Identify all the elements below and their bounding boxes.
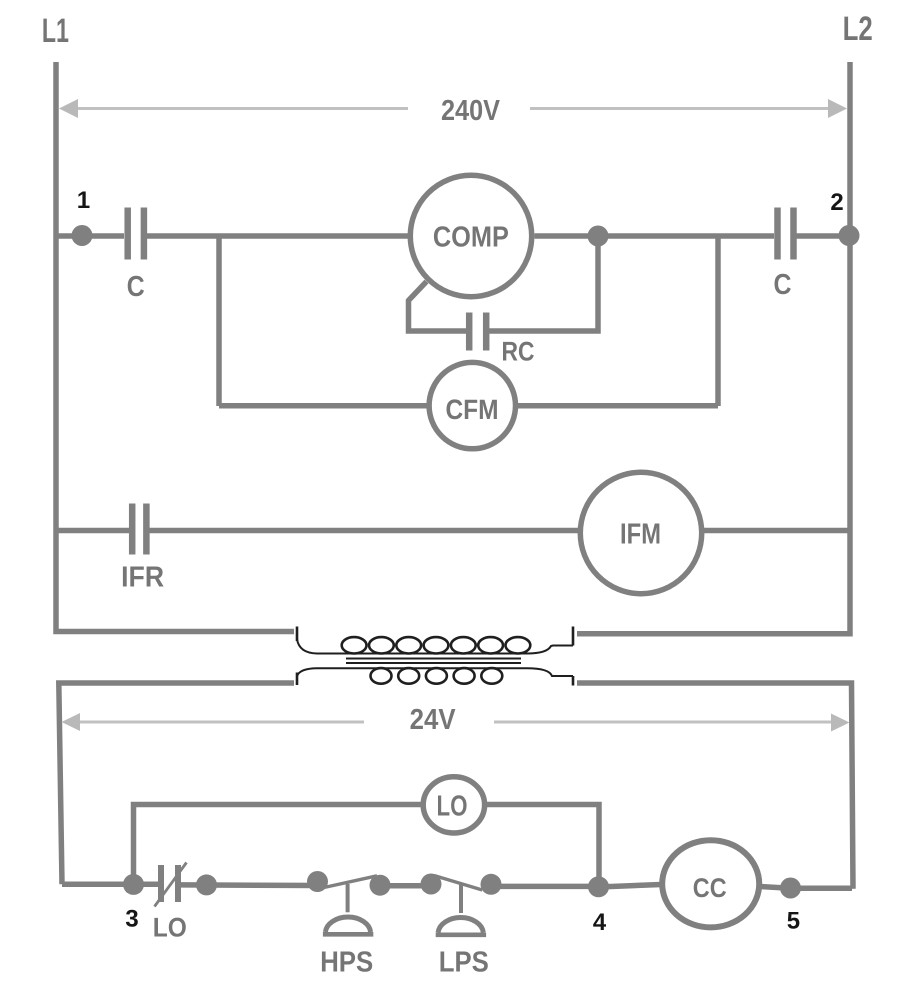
wire bottom row seg4 bbox=[491, 884, 599, 890]
motor IFM bbox=[580, 472, 701, 593]
node 4 bbox=[588, 876, 609, 897]
wire RC loop right bbox=[489, 241, 598, 331]
relay coil LO bbox=[423, 777, 484, 833]
pressure switch LPS bbox=[421, 874, 502, 935]
wire branch right vertical bbox=[715, 236, 721, 406]
capacitor contact C (left) bbox=[128, 208, 144, 260]
wire IFR row left bbox=[56, 528, 129, 534]
node 4 label bbox=[593, 914, 606, 931]
label RC bbox=[503, 342, 534, 361]
label HPS bbox=[322, 951, 372, 972]
label C (right) bbox=[775, 274, 791, 295]
label LPS bbox=[441, 951, 488, 972]
motor CFM bbox=[429, 362, 515, 448]
transformer T1 secondary lead ticks bbox=[297, 673, 573, 686]
transformer T1 primary coils bbox=[342, 637, 531, 653]
node after LO contact bbox=[196, 874, 217, 895]
label 24V bbox=[411, 709, 456, 729]
transformer T1 primary lead wire bbox=[297, 639, 573, 654]
node 5 label bbox=[788, 912, 800, 929]
capacitor contact C (right) bbox=[778, 208, 794, 260]
contact LO normally-closed bbox=[161, 865, 178, 902]
transformer T1 primary lead ticks bbox=[297, 627, 573, 646]
wire row1 left bbox=[58, 233, 124, 239]
wire bottom row seg1 bbox=[62, 882, 158, 888]
wire IFR row mid bbox=[150, 528, 579, 534]
node 1 label bbox=[78, 192, 89, 209]
node L1 label bbox=[43, 19, 68, 42]
wire L2 rail bbox=[577, 62, 850, 634]
node 1 bbox=[72, 225, 93, 246]
wire LO branch right bbox=[487, 805, 599, 887]
wire CFM row right bbox=[517, 403, 718, 409]
wire bottom row seg3 bbox=[380, 883, 432, 889]
wire LO branch left bbox=[134, 805, 422, 885]
transformer T1 core bbox=[346, 659, 521, 664]
node L2 label bbox=[844, 16, 871, 40]
contactor coil CC bbox=[662, 840, 759, 927]
wire 24V loop left bbox=[59, 683, 294, 884]
wire to node 2 bbox=[797, 233, 847, 239]
transformer T1 secondary coils bbox=[371, 668, 503, 684]
wire 24V loop right bbox=[577, 683, 853, 889]
pressure switch HPS bbox=[307, 871, 391, 934]
motor COMP bbox=[410, 175, 531, 296]
label 240V bbox=[442, 100, 500, 121]
node 2 bbox=[839, 225, 860, 246]
wire IFR row right bbox=[704, 528, 850, 534]
wire RC loop left bbox=[409, 282, 468, 332]
capacitor RC bbox=[469, 313, 486, 351]
contact IFR bbox=[132, 504, 146, 555]
240V dimension arrow bbox=[59, 99, 847, 118]
wire bottom row seg2 bbox=[181, 882, 320, 888]
node 5 bbox=[780, 878, 801, 899]
transformer T1 secondary lead wire bbox=[297, 668, 573, 676]
label LO contact bbox=[154, 918, 185, 937]
24V dimension arrow bbox=[62, 713, 850, 732]
node 2 label bbox=[831, 193, 843, 210]
label IFR bbox=[123, 567, 164, 587]
node 3 label bbox=[126, 910, 138, 927]
wire CFM row left bbox=[219, 403, 428, 409]
node after COMP bbox=[588, 226, 609, 247]
wire node4 to CC bbox=[599, 885, 662, 888]
wire row1 mid bbox=[147, 233, 408, 239]
wire CC to node5 bbox=[760, 887, 852, 889]
label C (left) bbox=[128, 276, 144, 297]
wire row1 right bbox=[535, 233, 775, 239]
node 3 bbox=[123, 874, 144, 895]
wire L1 rail bbox=[56, 62, 294, 632]
wire branch left vertical bbox=[216, 236, 222, 406]
